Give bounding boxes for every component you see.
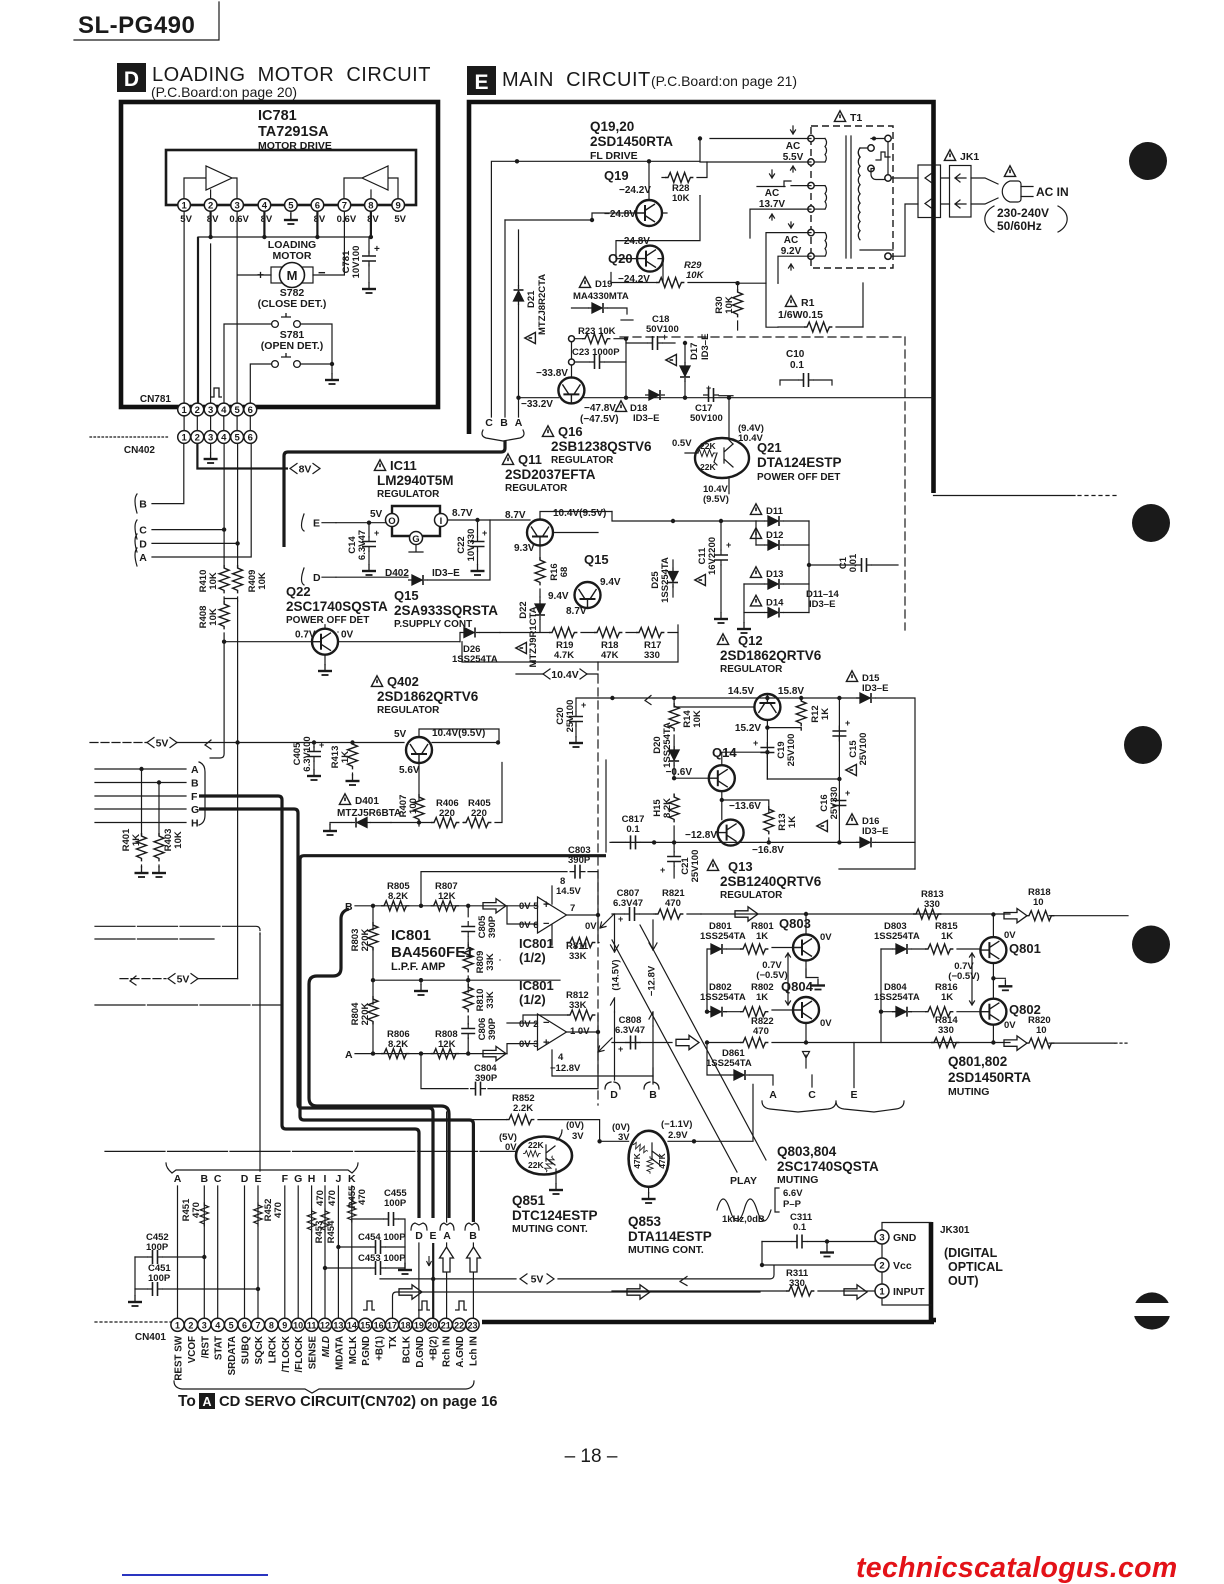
wire into CN401 pin1 (95, 1321, 172, 1323)
svg-text:(9.5V): (9.5V) (703, 494, 729, 505)
diode D11 (750, 504, 784, 526)
svg-text:D: D (313, 572, 321, 584)
resistor R806 (381, 1029, 410, 1059)
svg-text:D17: D17 (689, 343, 700, 360)
svg-text:0V 3: 0V 3 (519, 1039, 539, 1050)
svg-text:23: 23 (468, 1320, 478, 1330)
T1 primary pin circles (808, 135, 814, 259)
capacitor C453 (323, 1253, 412, 1275)
diode D21 (514, 230, 549, 398)
svg-text:O: O (388, 516, 395, 527)
transistor Q14 (709, 765, 735, 791)
svg-text:D21: D21 (526, 290, 537, 308)
svg-text:A: A (202, 1395, 211, 1409)
0V wire Q22 to D26 (338, 632, 460, 642)
diode D19 (572, 277, 634, 320)
svg-text:10: 10 (1033, 897, 1044, 908)
svg-text:0V: 0V (341, 630, 354, 641)
capacitor C311 (760, 1212, 875, 1267)
svg-text:10: 10 (1036, 1025, 1047, 1036)
transistor Q13 pnp (718, 820, 744, 846)
svg-text:C: C (808, 1089, 816, 1101)
svg-text:8.7V: 8.7V (505, 510, 526, 521)
svg-text:+: + (753, 738, 758, 748)
svg-text:470: 470 (753, 1026, 769, 1037)
svg-text:E: E (429, 1230, 436, 1242)
svg-text:+B(2): +B(2) (428, 1336, 439, 1361)
op-amp IC801 1/2 (bottom) (507, 1014, 653, 1084)
svg-text:A: A (443, 1230, 451, 1242)
svg-text:D19: D19 (595, 279, 612, 290)
svg-text:1SS254TA: 1SS254TA (660, 557, 671, 603)
svg-text:−24.2V: −24.2V (618, 274, 650, 285)
heavy wire CBA to CN402 area (284, 441, 505, 547)
Q22 part labels (286, 584, 388, 626)
svg-text:B: B (139, 499, 147, 511)
svg-text:D.GND: D.GND (415, 1336, 426, 1368)
node C wire (152, 444, 224, 568)
svg-text:19: 19 (414, 1320, 424, 1330)
resistor R16 (535, 557, 570, 597)
svg-text:+: + (543, 899, 549, 911)
svg-text:DTC124ESTP: DTC124ESTP (512, 1208, 598, 1223)
svg-text:OUT): OUT) (948, 1274, 979, 1288)
B wire + block arrow up (472, 1243, 474, 1318)
svg-text:1/6W0.15: 1/6W0.15 (778, 309, 823, 321)
registration dot 2 (1132, 504, 1170, 542)
muting top rail (701, 913, 1010, 915)
svg-text:IC801: IC801 (519, 936, 554, 951)
svg-text:390P: 390P (487, 1017, 498, 1040)
D11-14 wiring ladder (744, 521, 809, 613)
svg-text:D12: D12 (766, 530, 783, 541)
svg-text:G: G (191, 804, 199, 816)
CN402 pin3 ground (210, 444, 212, 452)
CN781 to CN402 links (184, 416, 250, 431)
resistor R801 (740, 921, 774, 954)
svg-text:8: 8 (560, 876, 565, 887)
svg-text:(P.C.Board:on page 20): (P.C.Board:on page 20) (151, 84, 297, 100)
svg-text:/FLOCK: /FLOCK (294, 1336, 305, 1372)
motor M1 (257, 263, 326, 288)
power supply dashed outline (620, 337, 905, 630)
node A wire (95, 768, 186, 770)
svg-text:technicscatalogus.com: technicscatalogus.com (856, 1552, 1177, 1584)
svg-text:33K: 33K (485, 953, 496, 971)
svg-text:220K: 220K (360, 929, 371, 952)
svg-text:2.2K: 2.2K (513, 1103, 533, 1114)
buffer triangle left (184, 166, 237, 205)
svg-text:100: 100 (408, 798, 419, 814)
svg-text:4: 4 (262, 201, 268, 212)
svg-text:4: 4 (558, 1052, 564, 1063)
svg-text:MOTOR: MOTOR (273, 250, 312, 262)
svg-text:1: 1 (181, 201, 187, 212)
heavy bundle D (199, 796, 419, 1218)
svg-text:MDATA: MDATA (334, 1336, 345, 1370)
svg-text:A: A (769, 1089, 777, 1101)
svg-text:14.5V: 14.5V (728, 686, 754, 697)
R815 (925, 921, 980, 954)
svg-text:0V: 0V (1004, 1020, 1016, 1031)
svg-text:+: + (543, 1037, 549, 1049)
svg-text:LM2940T5M: LM2940T5M (377, 473, 454, 488)
svg-text:8: 8 (269, 1320, 274, 1330)
svg-text:MLD: MLD (321, 1336, 332, 1357)
svg-text:+: + (374, 528, 379, 538)
svg-text:SQCK: SQCK (254, 1336, 265, 1364)
svg-text:470: 470 (273, 1202, 284, 1218)
svg-text:33K: 33K (569, 951, 587, 962)
svg-text:1SS254TA: 1SS254TA (700, 931, 746, 942)
svg-text:TA7291SA: TA7291SA (258, 124, 329, 140)
svg-text:8.2K: 8.2K (662, 798, 673, 818)
resistor R405 (463, 798, 491, 828)
svg-text:0V 2: 0V 2 (519, 1019, 539, 1030)
svg-text:D: D (124, 68, 139, 91)
svg-text:FL DRIVE: FL DRIVE (590, 150, 638, 162)
svg-text:P.GND: P.GND (361, 1336, 372, 1366)
svg-text:GND: GND (893, 1232, 917, 1244)
svg-text:MTZJ5R6BTA: MTZJ5R6BTA (337, 808, 401, 819)
svg-text:330: 330 (924, 899, 940, 910)
svg-text:(P.C.Board:on page 21): (P.C.Board:on page 21) (651, 73, 797, 89)
thermal fuse icon (876, 152, 890, 160)
resistor R409 (233, 565, 268, 593)
capacitor C455 (352, 1188, 408, 1263)
resistor R12 (796, 698, 831, 730)
R816 (925, 982, 980, 1017)
Q402 labels (371, 674, 478, 716)
svg-text:MCLK: MCLK (348, 1336, 359, 1364)
svg-text:33K: 33K (569, 1000, 587, 1011)
section E header (467, 66, 797, 95)
svg-text:CN781: CN781 (140, 394, 172, 405)
diode D861 (706, 1042, 773, 1085)
Q851 labels (512, 1193, 598, 1235)
Q11 labels (502, 452, 595, 494)
svg-text:1K: 1K (131, 834, 142, 846)
resistor R401 (121, 769, 149, 877)
C803 feedback loop (421, 872, 598, 915)
svg-text:22K: 22K (700, 441, 716, 451)
0.7V (-0.5V) arrow right (948, 953, 979, 1005)
svg-text:10K: 10K (208, 608, 219, 626)
svg-text:−: − (318, 265, 326, 280)
svg-text:10.4V(9.5V): 10.4V(9.5V) (432, 728, 485, 739)
wire pin1 down to CN781 (183, 211, 185, 403)
svg-text:(0V): (0V) (566, 1120, 584, 1131)
T1 secondary taps (868, 135, 891, 259)
svg-text:1K: 1K (787, 816, 798, 828)
D B labels (610, 1089, 657, 1101)
svg-text:25V100: 25V100 (565, 700, 576, 733)
svg-text:8.2K: 8.2K (388, 891, 408, 902)
svg-text:AC: AC (784, 235, 798, 246)
net tag 8V (197, 444, 288, 469)
diode D16 (839, 814, 915, 869)
svg-text:−33.2V: −33.2V (521, 399, 553, 410)
Q801,802 labels (948, 1054, 1031, 1098)
capacitor C20 (555, 698, 598, 747)
svg-text:Q19: Q19 (604, 168, 629, 183)
wire pin3 branch down (211, 244, 238, 403)
svg-text:+B(1): +B(1) (375, 1336, 386, 1361)
svg-text:25V100: 25V100 (786, 734, 797, 767)
R401 R403 junctions (139, 767, 161, 785)
svg-text:C453 100P: C453 100P (358, 1253, 406, 1264)
capacitor C805 (461, 906, 498, 943)
D803 (874, 921, 925, 954)
svg-text:Q11: Q11 (518, 452, 542, 467)
diode D402 (336, 520, 490, 585)
svg-text:6: 6 (242, 1320, 247, 1330)
capacitor C817 (612, 814, 654, 849)
svg-text:Q801,802: Q801,802 (948, 1054, 1007, 1069)
section diagonal leaders (612, 925, 766, 1172)
Q853 labels (628, 1214, 712, 1256)
svg-text:H: H (308, 1173, 316, 1185)
svg-text:22K: 22K (528, 1140, 544, 1150)
svg-text:22: 22 (454, 1320, 464, 1330)
svg-text:50/60Hz: 50/60Hz (997, 219, 1042, 233)
net tag 5V lower (168, 973, 198, 985)
svg-text:TX: TX (388, 1336, 399, 1349)
PLAY sine wave (717, 1175, 803, 1225)
230-240V label (985, 206, 1067, 233)
wire CN402-5 down (5V bus) (237, 601, 239, 743)
svg-text:25V100: 25V100 (858, 733, 869, 766)
Q803,804 labels (777, 1144, 879, 1186)
svg-text:5V: 5V (156, 737, 169, 749)
svg-text:C23 1000P: C23 1000P (572, 347, 620, 358)
svg-text:+: + (618, 914, 623, 924)
svg-text:REST SW: REST SW (174, 1335, 185, 1380)
svg-text:0.5V: 0.5V (672, 438, 692, 449)
svg-text:6.3V47: 6.3V47 (357, 530, 368, 560)
svg-text:10.4V: 10.4V (551, 669, 578, 681)
svg-text:5: 5 (229, 1320, 234, 1330)
svg-text:REGULATOR: REGULATOR (377, 705, 440, 716)
transistor Q16 (558, 377, 584, 403)
svg-text:MUTING: MUTING (948, 1086, 989, 1098)
svg-text:3: 3 (234, 201, 239, 212)
node D wire (152, 444, 238, 568)
svg-text:−13.6V: −13.6V (729, 801, 761, 812)
svg-text:P–P: P–P (783, 1199, 802, 1210)
node F wire (95, 795, 186, 797)
Q16 labels (542, 424, 652, 466)
svg-text:POWER OFF DET: POWER OFF DET (286, 615, 369, 626)
svg-text:ID3–E: ID3–E (809, 599, 835, 610)
capacitor C405 (292, 736, 324, 780)
svg-text:2SD1862QRTV6: 2SD1862QRTV6 (720, 648, 822, 663)
capacitor C15 (832, 718, 869, 776)
resistor R408 (198, 601, 229, 642)
diode D15 (846, 671, 915, 869)
resistor R30 (714, 281, 743, 330)
diode D13 (750, 567, 784, 589)
capacitor C21 (660, 842, 701, 882)
svg-text:(−1.1V): (−1.1V) (661, 1119, 692, 1130)
svg-text:0V 6: 0V 6 (519, 920, 539, 931)
svg-text:2: 2 (879, 1261, 884, 1272)
capacitor C19 (753, 734, 797, 767)
svg-text:Q851: Q851 (512, 1193, 546, 1208)
wires JK1 to plug (941, 178, 998, 204)
Q12 base wire from R14 (674, 706, 754, 708)
svg-text:3: 3 (879, 1233, 884, 1244)
svg-text:5V: 5V (370, 509, 383, 520)
svg-text:4: 4 (215, 1320, 220, 1330)
svg-text:3V: 3V (572, 1131, 584, 1142)
stage box corner (462, 625, 678, 662)
svg-text:15.2V: 15.2V (735, 723, 761, 734)
svg-text:I: I (440, 516, 443, 527)
svg-text:+: + (319, 740, 324, 750)
svg-text:47K: 47K (601, 650, 619, 661)
transistor Q402 (406, 737, 432, 763)
svg-text:330: 330 (938, 1025, 954, 1036)
node C B A wires (491, 161, 518, 417)
resistor R15 (652, 794, 679, 842)
Q853 digital transistor (629, 1131, 669, 1187)
TX wire to JK301 (393, 1292, 761, 1318)
svg-text:B: B (649, 1089, 657, 1101)
long wire bus left 2 (95, 938, 214, 940)
svg-text:Vcc: Vcc (893, 1260, 912, 1272)
svg-text:LRCK: LRCK (267, 1336, 278, 1363)
svg-text:IC801: IC801 (519, 978, 554, 993)
T1 primary coils (811, 139, 827, 257)
R820 (1026, 1015, 1054, 1048)
svg-text:5: 5 (288, 201, 294, 212)
svg-text:5V: 5V (394, 729, 407, 740)
svg-text:5.6V: 5.6V (399, 765, 420, 776)
svg-text:5V: 5V (177, 973, 190, 985)
svg-text:REGULATOR: REGULATOR (377, 489, 440, 500)
title tab border (74, 2, 219, 40)
svg-text:E: E (474, 71, 488, 94)
A-K brace (166, 1163, 358, 1173)
svg-text:5V: 5V (180, 214, 192, 225)
svg-text:2SC1740SQSTA: 2SC1740SQSTA (777, 1159, 879, 1174)
svg-text:STAT: STAT (214, 1336, 225, 1360)
diode D14 (750, 595, 784, 617)
wires lower AC area (738, 283, 863, 327)
svg-text:6.3V47: 6.3V47 (615, 1025, 645, 1036)
op-amp block IC781 (166, 150, 416, 205)
svg-text:15: 15 (360, 1320, 370, 1330)
svg-text:ID3–E: ID3–E (862, 683, 888, 694)
svg-text:G: G (412, 534, 419, 545)
svg-text:IC801: IC801 (391, 927, 431, 944)
lower rail -16.8V (610, 841, 863, 843)
Q19 base/emitter wires (505, 196, 700, 259)
svg-text:(14.5V): (14.5V) (611, 959, 622, 990)
resistor R852 (458, 1093, 600, 1141)
svg-text:AC: AC (786, 141, 800, 152)
muting lower rail (612, 1042, 1010, 1044)
svg-text:Lch IN: Lch IN (469, 1336, 480, 1366)
diode D801 (700, 921, 746, 954)
resistor R410 (198, 565, 229, 593)
diode D20 (652, 722, 679, 778)
diode D22 (516, 597, 545, 668)
svg-text:3: 3 (208, 405, 213, 416)
svg-text:MUTING: MUTING (777, 1174, 818, 1186)
svg-text:F: F (282, 1173, 289, 1185)
svg-text:D14: D14 (766, 598, 784, 609)
rail -24V area wires (612, 512, 756, 522)
svg-text:J: J (335, 1173, 341, 1185)
svg-text:470: 470 (327, 1190, 338, 1206)
8V bus wire (198, 236, 371, 238)
resistor R811 (566, 915, 599, 962)
svg-text:33K: 33K (485, 991, 496, 1009)
svg-text:Rch IN: Rch IN (442, 1336, 453, 1367)
svg-text:B: B (345, 901, 353, 913)
svg-text:D401: D401 (355, 796, 379, 807)
resistor R28 (662, 162, 707, 204)
svg-text:CN402: CN402 (124, 445, 156, 456)
svg-text:100P: 100P (384, 1198, 407, 1209)
svg-text:MUTING CONT.: MUTING CONT. (512, 1223, 588, 1235)
svg-text:6.6V: 6.6V (783, 1188, 803, 1199)
svg-text:0V: 0V (1004, 930, 1016, 941)
svg-text:470: 470 (315, 1190, 326, 1206)
svg-text:0V: 0V (820, 932, 832, 943)
svg-text:VCOF: VCOF (187, 1336, 198, 1363)
C804 feedback loop (421, 1032, 598, 1089)
resistor R403 (152, 783, 184, 878)
svg-text:1kHz,0dB: 1kHz,0dB (722, 1214, 765, 1225)
svg-text:0V 5: 0V 5 (519, 901, 539, 912)
svg-text:5: 5 (234, 405, 240, 416)
svg-text:15.8V: 15.8V (778, 686, 804, 697)
DIGITAL OPTICAL OUT (944, 1246, 1003, 1288)
svg-text:1: 1 (181, 433, 187, 444)
svg-text:C: C (139, 525, 147, 537)
A-K bus letters (174, 1173, 356, 1185)
svg-text:2: 2 (195, 405, 200, 416)
CN402 connector (178, 431, 257, 444)
pin stubs to 8V bus (211, 211, 371, 237)
wire T1 mid winding (750, 186, 811, 238)
pulse mark near CN781 (210, 388, 222, 397)
svg-text:−: − (543, 1017, 549, 1029)
A wire + block arrow up (446, 1112, 448, 1318)
svg-text:−33.8V: −33.8V (536, 368, 568, 379)
svg-text:220: 220 (471, 808, 487, 819)
transistor Q15 (575, 582, 601, 608)
Q19/Q20 wires (517, 139, 700, 201)
resistor R29 (611, 260, 737, 288)
svg-text:6: 6 (315, 201, 320, 212)
svg-text:6.3V100: 6.3V100 (302, 736, 313, 771)
registration mark bottom (split circle) (1128, 1292, 1176, 1329)
svg-text:1SS254TA: 1SS254TA (452, 654, 498, 665)
svg-text:−: − (543, 918, 549, 930)
svg-text:2SC1740SQSTA: 2SC1740SQSTA (286, 599, 388, 614)
svg-text:REGULATOR: REGULATOR (551, 455, 614, 466)
long wire bus left 1 (95, 926, 260, 934)
diode D25 (650, 557, 678, 603)
svg-text:2SB1238QSTV6: 2SB1238QSTV6 (551, 439, 652, 454)
svg-text:DTA124ESTP: DTA124ESTP (757, 455, 842, 470)
resistor R808 (431, 1029, 459, 1059)
0.7V wire to Q22 (224, 641, 311, 643)
